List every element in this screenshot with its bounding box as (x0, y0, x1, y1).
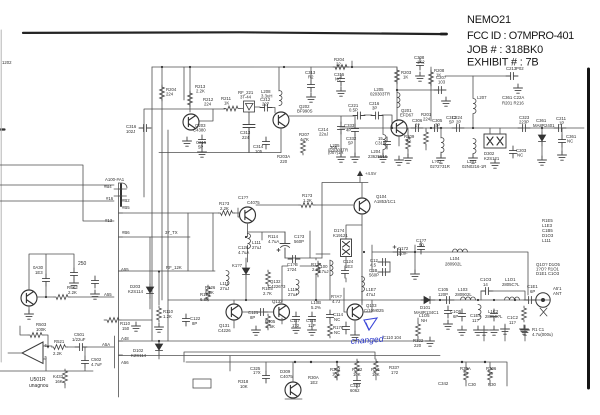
diode box D104 (341, 239, 352, 257)
wire Q202 out ladder (289, 115, 392, 155)
inductor L208 coil (279, 91, 282, 106)
capacitor C107 (417, 242, 424, 254)
resistor R322 (416, 322, 421, 338)
wire lower box y359 (186, 362, 507, 386)
resistor R203 (395, 68, 400, 84)
resistor R503 (28, 333, 44, 338)
wire line y152 (159, 152, 281, 154)
svg-text:K2S121: K2S121 (484, 156, 500, 161)
svg-text:4P: 4P (346, 128, 351, 133)
resistor R105 (266, 270, 271, 286)
svg-text:1K: 1K (403, 75, 408, 80)
svg-text:#B2: #B2 (122, 198, 130, 203)
border right bar (587, 69, 590, 388)
ground below Q203 (183, 137, 192, 146)
svg-text:22uF: 22uF (398, 251, 408, 256)
svg-text:5P: 5P (348, 141, 353, 146)
svg-text:ANT: ANT (553, 291, 562, 296)
svg-text:11?: 11? (472, 318, 479, 323)
inductor L107 (362, 277, 365, 292)
capacitor C207 (434, 86, 446, 93)
resistor R176 (328, 322, 333, 338)
inductor L201 (473, 139, 476, 154)
wire lower box stubs (266, 362, 490, 386)
diode K107 (242, 265, 249, 279)
svg-text:47uJ: 47uJ (366, 292, 375, 297)
svg-text:#B6: #B6 (122, 230, 130, 235)
capacitor C314 (262, 137, 269, 149)
wire D203 drop (150, 237, 159, 309)
capacitor C313 (243, 125, 255, 153)
resistor R208 (429, 70, 434, 86)
capacitor C501 (75, 343, 87, 350)
svg-text:2.2K: 2.2K (196, 89, 205, 94)
svg-text:12P: 12P (308, 323, 316, 328)
antenna ANT (536, 293, 550, 307)
svg-text:4.7uF: 4.7uF (91, 362, 102, 367)
svg-text:R201 R216: R201 R216 (502, 101, 524, 106)
svg-text:4.7u(000u): 4.7u(000u) (532, 332, 553, 337)
capacitor C224 (452, 124, 464, 131)
wire vertical x190 to Q203 (189, 67, 191, 112)
wire mid column x213 (212, 213, 214, 271)
svg-text:NC: NC (335, 77, 341, 82)
svg-text:4.7K: 4.7K (300, 137, 309, 142)
svg-text:227: 227 (262, 102, 270, 107)
svg-text:L207: L207 (477, 95, 487, 100)
svg-text:223P: 223P (519, 120, 529, 125)
wire vertical x144 (144, 109, 225, 197)
svg-text:Q132: Q132 (272, 299, 283, 304)
wire K107 row (282, 254, 330, 302)
ground under Q309 (285, 398, 302, 400)
blue check mark (364, 318, 377, 330)
capacitor C505 (70, 268, 77, 280)
ground under C503 (91, 290, 100, 299)
diode D102 (155, 341, 162, 355)
svg-text:102J: 102J (126, 129, 135, 134)
capacitor C105 (442, 296, 454, 303)
wire bus vertical x118 (118, 183, 120, 397)
capacitor C212 (260, 104, 272, 111)
svg-text:1E2: 1E2 (310, 380, 318, 385)
resistor R502 (54, 295, 70, 300)
diode D101 (421, 296, 435, 303)
wire 37_TX (119, 213, 191, 271)
svg-text:8P: 8P (192, 321, 197, 326)
svg-text:27uJ: 27uJ (252, 245, 261, 250)
left edge dash (0, 128, 5, 130)
inductor L103 (461, 297, 476, 300)
svg-text:105: 105 (255, 149, 263, 154)
svg-text:P02: P02 (516, 66, 524, 71)
svg-text:EFD67: EFD67 (400, 113, 414, 118)
grounds mid (252, 326, 261, 335)
svg-text:C30: C30 (468, 382, 476, 387)
svg-text:120P: 120P (438, 292, 448, 297)
svg-text:42: 42 (406, 139, 411, 144)
svg-text:R521: R521 (54, 339, 65, 344)
svg-text:4.7uA: 4.7uA (238, 250, 249, 255)
wire y252 segment (398, 252, 528, 295)
wire vertical x168 (167, 130, 169, 341)
ground cap cluster (411, 270, 420, 279)
capacitor C318 (383, 137, 390, 149)
ground below Q202 (280, 128, 282, 153)
transistor Q124 top (240, 207, 256, 223)
svg-text:1K: 1K (224, 101, 229, 106)
capacitor C203 (509, 146, 516, 158)
svg-text:2805C?L: 2805C?L (502, 282, 520, 287)
transistor Q104 (354, 198, 370, 214)
capacitor C115 (308, 312, 315, 324)
svg-text:1P: 1P (559, 121, 564, 126)
wire vertical x152 (151, 67, 153, 341)
wire bus vertical x114 lower (114, 336, 116, 368)
capacitor C316 (139, 124, 151, 131)
svg-text:K1?7: K1?7 (232, 263, 243, 268)
resistor R201 (424, 130, 429, 146)
inductor L111 (226, 271, 229, 286)
svg-text:5.2%: 5.2% (311, 305, 321, 310)
svg-text:2?: 2? (415, 123, 420, 128)
svg-text:2.7K: 2.7K (263, 291, 272, 296)
svg-text:6062: 6062 (350, 388, 360, 393)
transistor Q103 (347, 304, 363, 320)
capacitor C323 (518, 124, 530, 131)
svg-text:1.2K: 1.2K (303, 198, 312, 203)
svg-text:A1853/1C1: A1853/1C1 (374, 199, 396, 204)
grounds under ladder (337, 153, 346, 162)
svg-text:6.8K: 6.8K (200, 297, 209, 302)
svg-text:C4075: C4075 (247, 200, 260, 205)
capacitor C221 ladder (353, 112, 365, 119)
svg-text:280902L: 280902L (455, 292, 472, 297)
svg-text:5P: 5P (198, 145, 203, 150)
svg-text:224: 224 (166, 92, 174, 97)
capacitor C308 (416, 58, 423, 70)
svg-text:0.5P: 0.5P (349, 108, 358, 113)
svg-text:02N0216-1R: 02N0216-1R (462, 164, 486, 169)
resistor R304 (335, 364, 340, 380)
svg-text:1?X: 1?X (253, 370, 261, 375)
diode D301 (538, 132, 545, 146)
svg-text:020303TR: 020303TR (328, 148, 348, 153)
capacitor C111 (378, 268, 390, 275)
svg-text:unagnou: unagnou (29, 383, 49, 389)
resistor R113 on rail (299, 203, 315, 208)
svg-text:220: 220 (414, 343, 422, 348)
svg-text:4.7J: 4.7J (332, 299, 340, 304)
resistor R209 (406, 135, 411, 151)
capacitor C103 lower (444, 306, 451, 318)
svg-text:560P: 560P (294, 239, 304, 244)
capacitor C124 (341, 266, 348, 278)
svg-text:2.2K: 2.2K (53, 351, 62, 356)
svg-text:#B5: #B5 (122, 205, 130, 210)
resistor R331 (374, 359, 379, 375)
svg-text:K2S114: K2S114 (128, 289, 144, 294)
wire op-amp nodes (8, 326, 52, 353)
resistor R101 (522, 306, 527, 322)
svg-text:10: 10 (488, 371, 493, 376)
capacitor C216 (371, 112, 383, 119)
svg-text:D1E1 C1O3: D1E1 C1O3 (536, 271, 560, 276)
wire Q203 to Q202 base (199, 107, 275, 121)
capacitor C123 (277, 232, 290, 258)
wire Q124 emitter (248, 224, 286, 262)
svg-text:1K: 1K (436, 73, 441, 78)
capacitor C503 left (91, 276, 98, 288)
resistor R512 (105, 318, 121, 323)
transistor Q203 (183, 114, 199, 130)
svg-text:02?2?31R: 02?2?31R (430, 164, 450, 169)
capacitor C332 (351, 124, 358, 136)
capacitor C1E1 (524, 296, 536, 303)
transistor Q132 (274, 304, 290, 320)
wire left horizontals (0, 165, 114, 221)
wires opamp area (0, 347, 93, 388)
svg-text:220: 220 (280, 159, 288, 164)
wire antenna line (540, 299, 550, 301)
wire Q104 down to Q103 (361, 215, 363, 305)
resistor R124 (316, 261, 321, 277)
wire C213 (445, 75, 506, 77)
svg-text:L111: L111 (542, 238, 552, 243)
wire vertical x162 (161, 67, 163, 300)
wire y213 (119, 212, 240, 214)
grounds above box (480, 326, 489, 335)
svg-text:1K2: 1K2 (417, 60, 425, 65)
wire rail y205 (256, 204, 353, 206)
inductor L207 (473, 99, 476, 114)
transistor Q501 bottom left (21, 290, 37, 306)
capacitor C113 (342, 322, 349, 334)
inductor L104 (453, 249, 468, 252)
svg-text:224: 224 (242, 135, 250, 140)
svg-text:R30: R30 (488, 382, 496, 387)
junction dots lower (461, 361, 463, 363)
wire vertical x184 (183, 67, 185, 100)
diode D203 (146, 284, 153, 298)
transistor Q202 (273, 112, 289, 128)
svg-text:NEMO21: NEMO21 (467, 14, 511, 26)
resistor R332 (355, 359, 360, 375)
svg-text:NH: NH (421, 318, 427, 323)
capacitor C114 (326, 310, 333, 322)
wire grounds above box (418, 318, 525, 341)
svg-text:EXHIBIT # : 7B: EXHIBIT # : 7B (467, 57, 539, 69)
svg-text:2.2K: 2.2K (68, 290, 77, 295)
wire top long horizontal (152, 66, 397, 68)
ground under Q103 (351, 331, 360, 340)
svg-text:50: 50 (419, 243, 424, 248)
svg-text:560P: 560P (369, 273, 379, 278)
capacitor C215 (198, 135, 205, 147)
svg-text:L104: L104 (450, 256, 460, 261)
svg-text:27uJ: 27uJ (220, 286, 229, 291)
svg-text:280902L: 280902L (445, 262, 462, 267)
wire Q104 base link (346, 225, 362, 282)
capacitor C306 (411, 124, 423, 131)
filter RFL221 (244, 101, 255, 124)
svg-text:16K: 16K (55, 379, 63, 384)
bus bracket (120, 184, 122, 206)
svg-text:NC: NC (567, 139, 573, 144)
svg-text:1?24: 1?24 (287, 267, 297, 272)
wire Q103 emitter (355, 300, 372, 332)
svg-text:2.2K: 2.2K (220, 206, 229, 211)
resistor R123 (219, 211, 235, 216)
wires bottom left (29, 254, 114, 312)
resistor R204b top (333, 65, 349, 70)
svg-text:A5A: A5A (102, 342, 110, 347)
inductor L101 (505, 297, 520, 300)
svg-text:MA8R2401: MA8R2401 (533, 123, 555, 128)
svg-text:A100-#A1: A100-#A1 (105, 177, 125, 182)
inductor L102 (478, 305, 481, 320)
svg-text:100K: 100K (36, 327, 46, 332)
capacitor C325 (262, 371, 269, 383)
resistor R521 (52, 345, 68, 350)
resistor R110b (157, 306, 162, 322)
resistor R126 (206, 285, 211, 301)
resistor R125 (266, 314, 271, 330)
svg-text:1202: 1202 (2, 60, 12, 65)
capacitor C502 (81, 356, 88, 368)
svg-text:14: 14 (483, 282, 488, 287)
capacitor C323b (353, 376, 360, 388)
wire Q103 base link (344, 288, 362, 312)
wire C313c stub (311, 67, 473, 128)
resistor R204 (160, 85, 165, 101)
svg-text:1.5K: 1.5K (266, 324, 275, 329)
svg-text:#B4: #B4 (104, 184, 112, 189)
capacitor C104 (458, 309, 465, 321)
svg-text:C342: C342 (438, 381, 449, 386)
svg-text:A55: A55 (104, 292, 112, 297)
svg-text:+4.5V: +4.5V (365, 171, 376, 176)
svg-text:104: 104 (394, 335, 402, 340)
wire main RF line y128 (340, 127, 584, 129)
capacitor C333 (337, 122, 344, 134)
capacitor C213 (506, 72, 518, 79)
svg-text:22uJ: 22uJ (319, 132, 328, 137)
svg-text:102: 102 (332, 372, 340, 377)
ground under Q201 (395, 156, 404, 165)
inductor L202 (441, 138, 444, 153)
ground under D302 (491, 159, 500, 168)
svg-text:NC: NC (334, 330, 340, 335)
svg-text:10: 10 (463, 371, 468, 376)
svg-text:10K: 10K (240, 384, 248, 389)
svg-text:2P: 2P (456, 120, 461, 125)
wires cap cluster (372, 245, 415, 272)
op-amp U501 (22, 342, 43, 364)
svg-text:A48: A48 (121, 336, 129, 341)
svg-text:224: 224 (204, 102, 212, 107)
svg-text:3T-44: 3T-44 (240, 95, 252, 100)
svg-text:1/22uF: 1/22uF (72, 337, 86, 342)
capacitor C102 (490, 309, 497, 321)
svg-text:3P: 3P (372, 106, 377, 111)
capacitor C504 (42, 274, 49, 286)
inductor L205 coil (397, 93, 400, 108)
capacitor C122 (182, 314, 189, 326)
transistor Q131 (226, 304, 242, 320)
svg-text:1?2: 1?2 (292, 323, 300, 328)
capacitor C116 (288, 255, 300, 262)
transistor Q309 (285, 382, 301, 398)
svg-text:C4226?3: C4226?3 (268, 284, 286, 289)
inductor L112 (296, 280, 299, 295)
wire RF_12K (119, 270, 216, 272)
thick top scan line (23, 32, 446, 34)
inductor L126 (248, 234, 251, 249)
wire Q131 Q132 links (234, 300, 282, 328)
capacitor C211 (554, 124, 566, 131)
wire y355 long (119, 355, 441, 357)
capacitor C305 (430, 124, 442, 131)
capacitor cluster C172 (393, 248, 405, 255)
transistor Q201 (391, 120, 407, 136)
svg-text:8P: 8P (250, 315, 255, 320)
svg-text:6P: 6P (453, 314, 458, 319)
resistor R433 (63, 369, 68, 385)
capacitor C315 (337, 74, 344, 86)
svg-text:NC: NC (517, 153, 523, 158)
svg-text:NC: NC (334, 317, 340, 322)
wire R208 top (430, 67, 432, 121)
svg-text:3P: 3P (435, 123, 440, 128)
svg-text:#16: #16 (106, 196, 114, 201)
wire top right segment (352, 61, 445, 121)
svg-text:BF990S: BF990S (297, 109, 313, 114)
ground under Q501 (25, 310, 34, 319)
svg-text:23625516: 23625516 (368, 154, 388, 159)
border left (0, 30, 2, 362)
resistor R30A (464, 366, 469, 382)
capacitor C12 (378, 258, 390, 265)
svg-text:1E3: 1E3 (35, 270, 43, 275)
svg-text:#13: #13 (105, 218, 113, 223)
svg-text:1.2K: 1.2K (163, 314, 172, 319)
svg-text:11?: 11? (509, 320, 516, 325)
wire box y352 (184, 352, 375, 371)
svg-text:22: 22 (336, 62, 341, 67)
wire +4.5V drop (322, 177, 368, 259)
svg-text:4.5: 4.5 (370, 263, 377, 268)
svg-text:RF_12K: RF_12K (166, 265, 182, 270)
svg-text:020303TR: 020303TR (370, 92, 390, 97)
inductor L204 (383, 135, 386, 150)
svg-text:A56: A56 (121, 360, 129, 365)
thick line end dash (441, 33, 447, 36)
svg-text:C361 C22A: C361 C22A (502, 95, 524, 100)
svg-text:224: 224 (423, 117, 431, 122)
svg-text:K2S114: K2S114 (131, 353, 147, 358)
svg-text:5P: 5P (449, 120, 454, 125)
svg-text:37_TX: 37_TX (165, 230, 178, 235)
resistor R207 (301, 139, 306, 155)
wire Q124 base bend (238, 208, 239, 217)
wire vertical x284 to Q202 (278, 67, 280, 91)
svg-text:150: 150 (122, 326, 130, 331)
svg-text:27uJ: 27uJ (288, 292, 297, 297)
resistor R211 (224, 106, 240, 111)
diode box D302 (484, 134, 506, 148)
node +4.5V (357, 171, 363, 177)
